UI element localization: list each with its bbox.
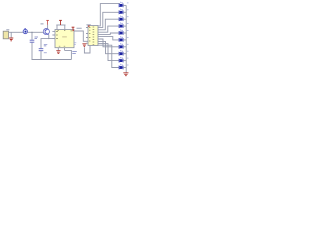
LED D9 [119, 57, 129, 63]
wire clock IC1 to IC2 [74, 31, 88, 41]
ground (IC1) [56, 51, 60, 54]
LED D4 [119, 23, 129, 29]
capacitor C2 [39, 44, 48, 59]
power VCC (Q1 collector) [46, 20, 49, 24]
wire to LED3 [98, 19, 119, 30]
wire to LED7 [98, 39, 119, 47]
pin label text (IC2 left) [74, 43, 77, 45]
wire IC2 gnd to rail [84, 46, 90, 54]
wire to LED4 [98, 26, 119, 32]
wire to LED2 [98, 12, 119, 27]
wire switch to transistor [28, 31, 44, 33]
wire to LED6 [98, 37, 119, 40]
wire battery to switch [9, 31, 24, 33]
wire to LED10 [98, 45, 119, 67]
wire IC1 pin to rail [65, 50, 72, 59]
cathode bus wire [125, 5, 127, 72]
power VCC terminal (IC1) [59, 20, 62, 25]
LED D3 [119, 16, 129, 22]
battery B1 [3, 29, 9, 39]
capacitor C1 [30, 32, 38, 59]
LED D2 [119, 9, 129, 15]
ground (battery) [9, 32, 13, 41]
switch / sensor [23, 28, 27, 33]
wire collector up [47, 25, 49, 29]
transistor Q1 [41, 23, 50, 35]
LED D5 [119, 29, 129, 35]
power VCC (right of IC1) [72, 27, 75, 31]
ground (LED bus) [123, 73, 128, 76]
node junction at C1 [31, 32, 32, 33]
IC U1 555 [52, 30, 74, 51]
VCC rail wire above IC1 [56, 24, 65, 26]
wire to LED5 [98, 33, 119, 34]
LED D1 [119, 2, 129, 8]
emitter wire down [48, 35, 50, 39]
wire to LED9 [98, 44, 119, 61]
IC U2 4017 [86, 24, 98, 45]
wire pin2 left [41, 39, 55, 49]
wire Q to LED1 [98, 4, 120, 26]
ground rail wire [32, 59, 72, 61]
ground (IC2 left) [82, 43, 88, 46]
LED D10 [119, 64, 129, 70]
LED D7 [119, 43, 129, 49]
LED D6 [119, 36, 129, 42]
LED D8 [119, 50, 129, 56]
wire to LED8 [98, 41, 119, 53]
